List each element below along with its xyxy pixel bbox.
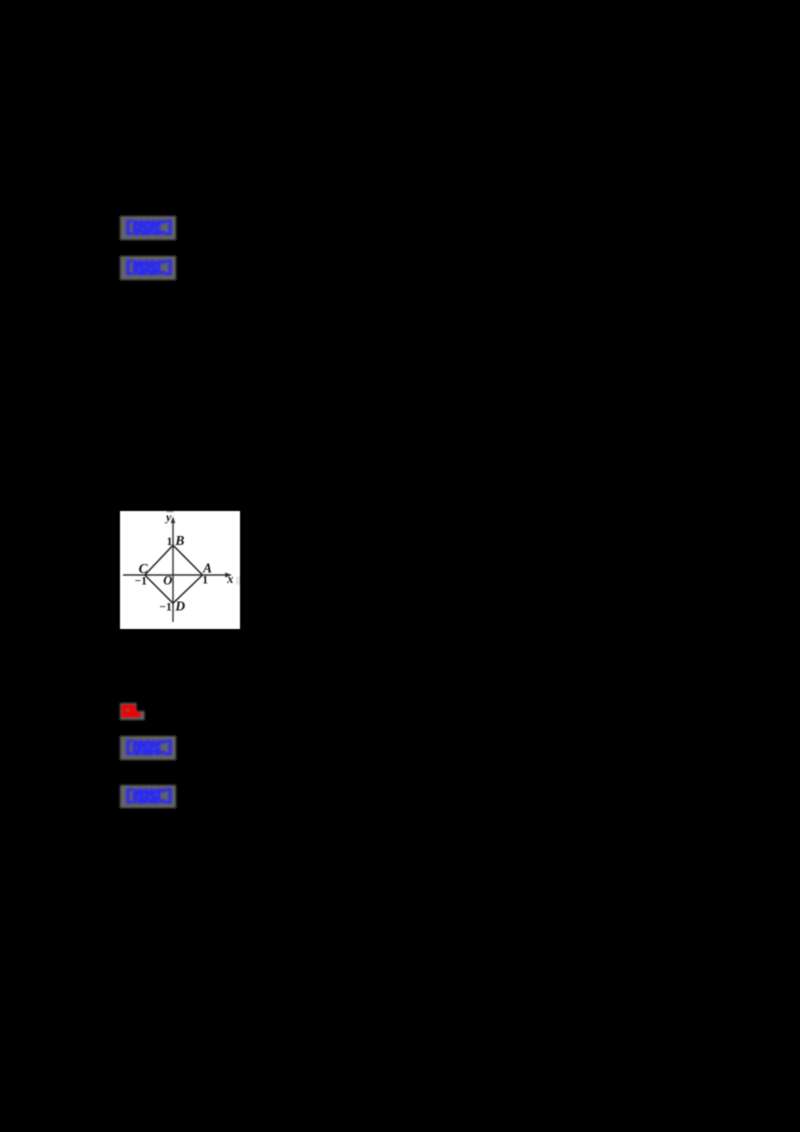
svg-text:C: C — [139, 561, 149, 576]
square ABCD — [145, 545, 203, 603]
faint gray smudge near right edge of x axis — [236, 576, 240, 584]
svg-text:D: D — [174, 599, 185, 614]
svg-text:O: O — [163, 573, 172, 587]
svg-text:x: x — [226, 572, 233, 586]
figure: white coordinate-plane panel with square ABCD — [120, 511, 240, 634]
svg-text:1: 1 — [167, 536, 173, 548]
svg-text:y: y — [164, 511, 172, 524]
svg-text:B: B — [174, 533, 184, 548]
x axis arrowhead — [225, 573, 232, 578]
y axis — [172, 520, 174, 622]
x axis — [123, 574, 228, 576]
svg-text:1: 1 — [202, 575, 208, 587]
labels — [135, 510, 234, 614]
faint artifact tick at top edge — [167, 511, 174, 512]
red question number on gray highlight — [120, 703, 145, 726]
label box 3: blue 【答案】tag on gray highlight — [120, 736, 176, 765]
svg-text:A: A — [202, 560, 212, 575]
label box 1: blue 【答案】tag on gray highlight — [120, 216, 176, 245]
label box 4: blue 【解析】tag on gray highlight — [120, 785, 176, 813]
label box 2: blue 【解析】tag on gray highlight — [120, 256, 176, 285]
y axis arrowhead — [171, 516, 176, 523]
svg-text:−1: −1 — [159, 602, 172, 614]
svg-text:−1: −1 — [135, 575, 148, 587]
